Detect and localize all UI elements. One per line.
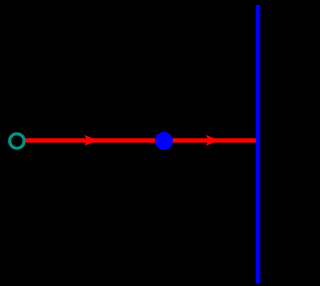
arrowhead 1 (84, 135, 98, 146)
screen (blue vertical line) (256, 5, 260, 284)
particle (blue dot) (155, 132, 173, 150)
arrowhead 2 (206, 135, 220, 146)
wire (red ray) (26, 138, 259, 142)
source (teal open circle) (10, 134, 24, 148)
